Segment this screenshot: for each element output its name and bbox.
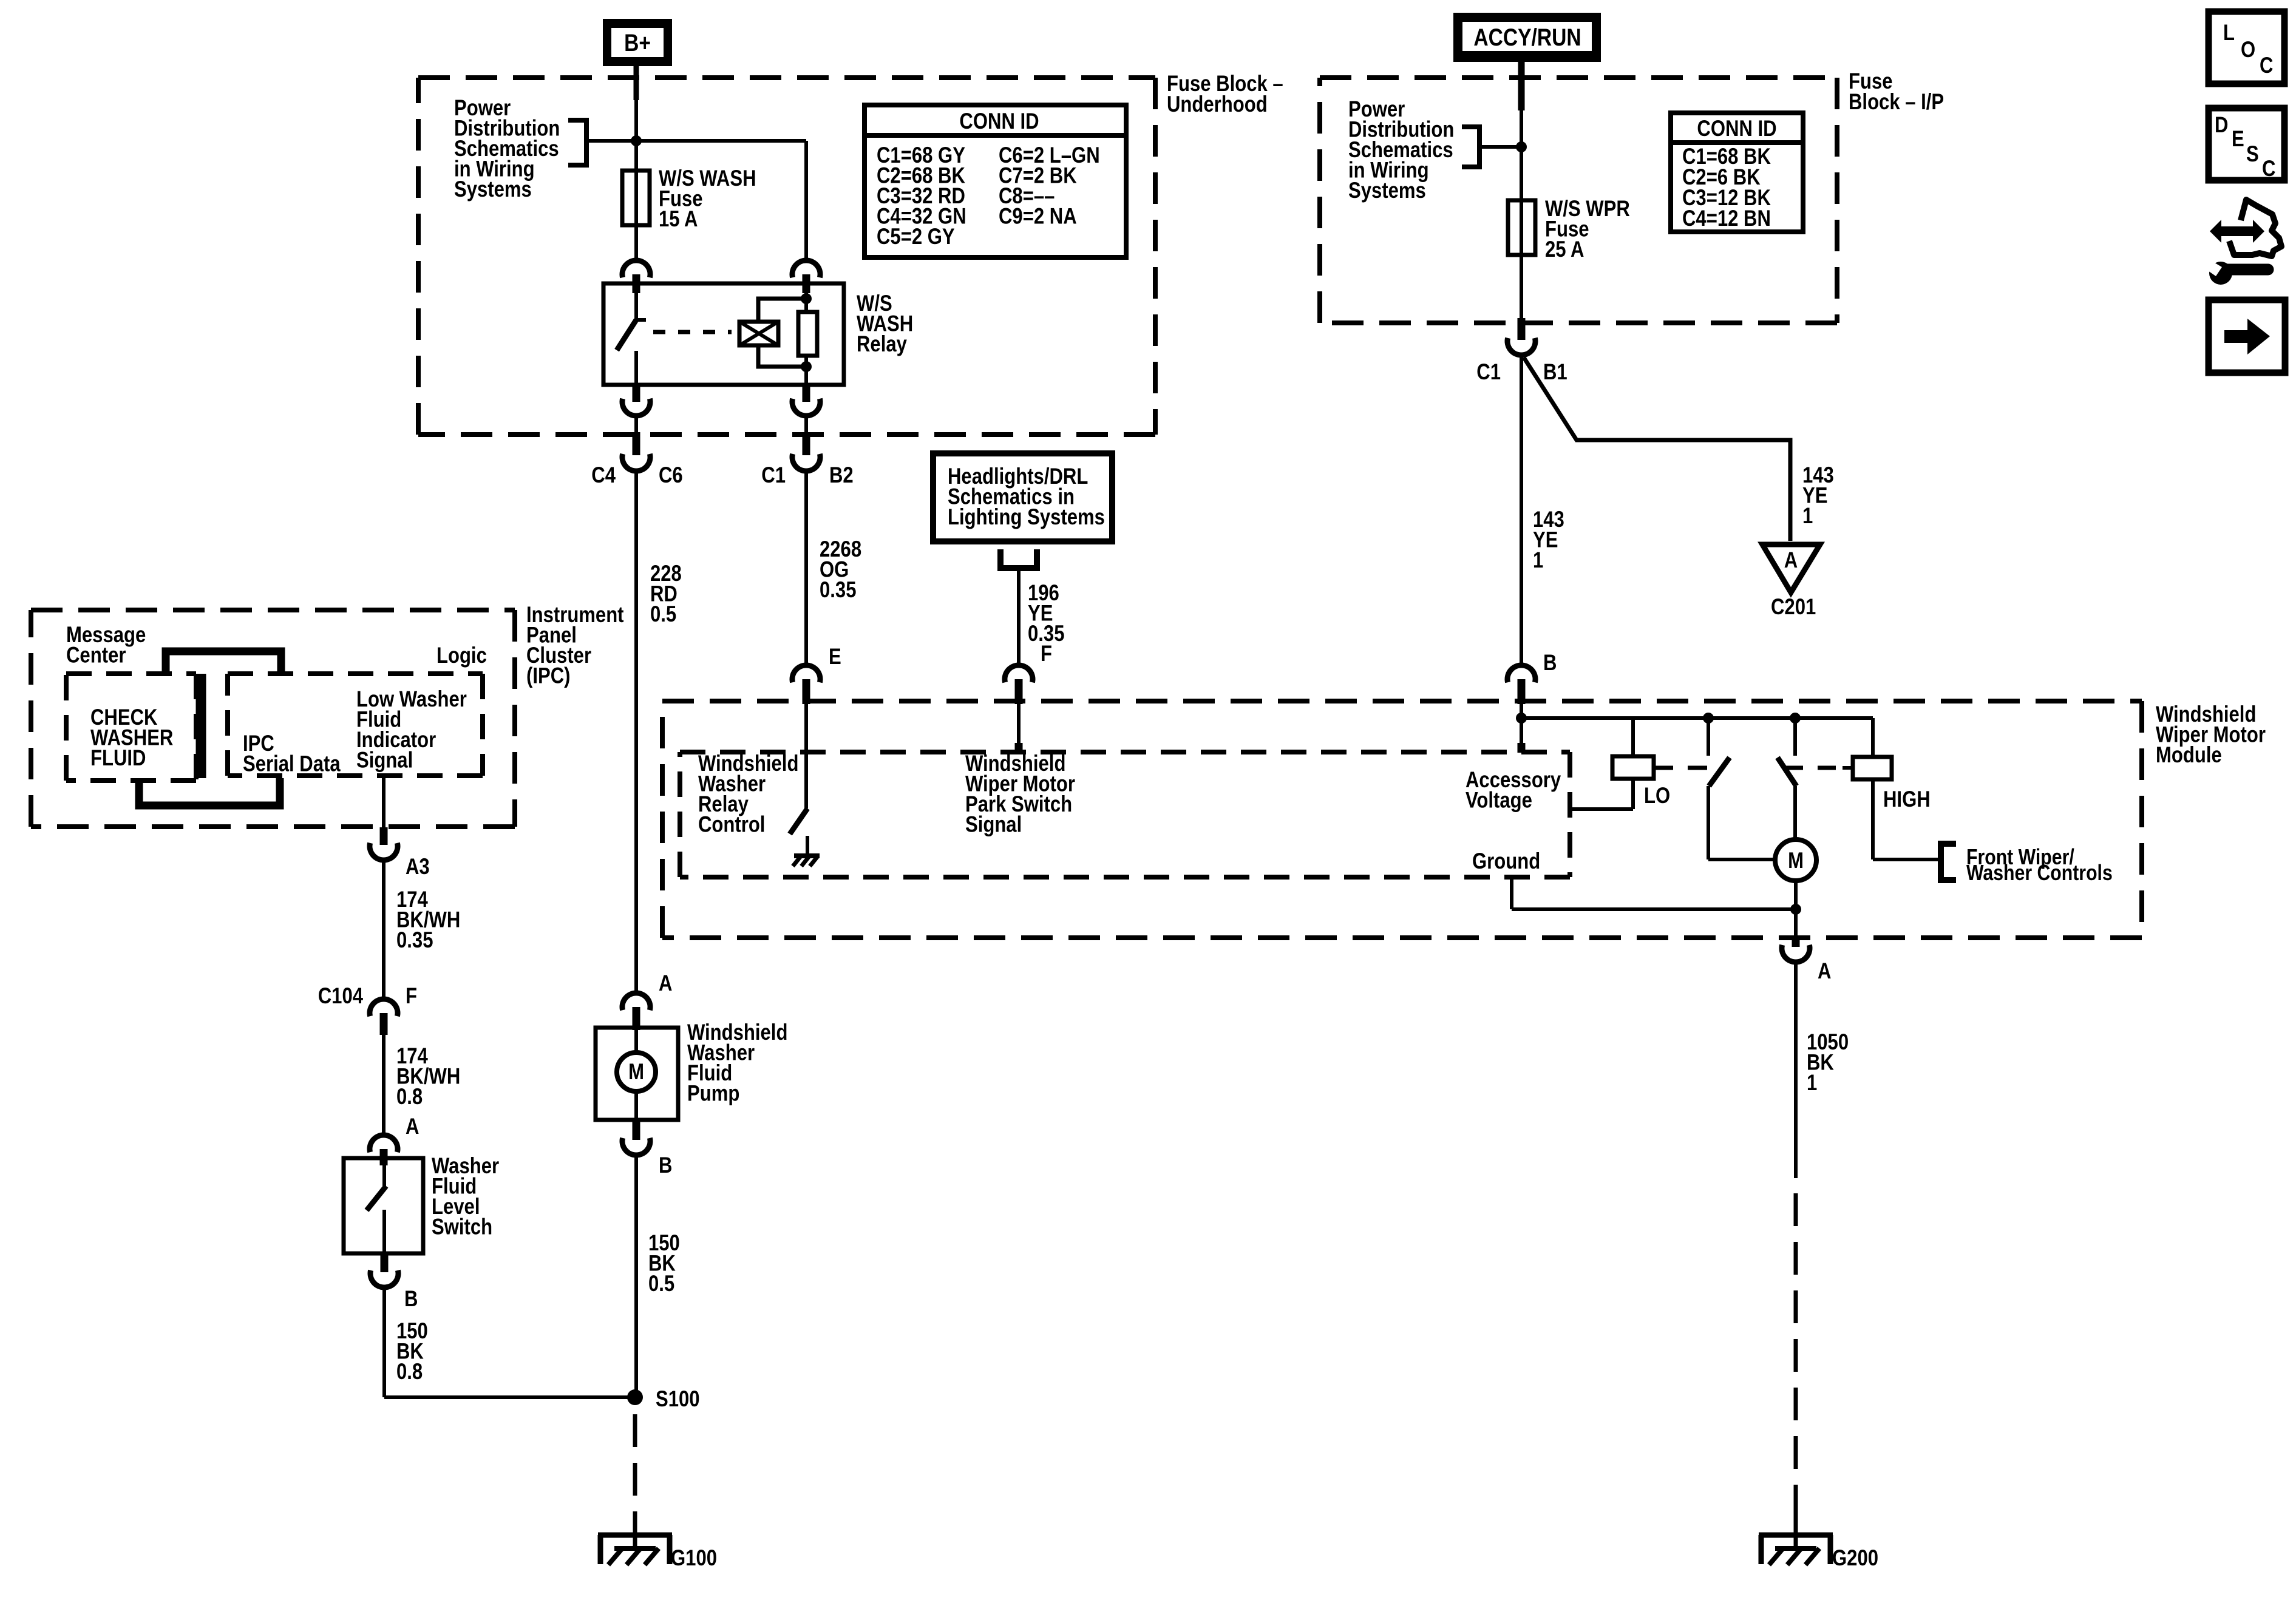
bracket power distribution underhood (568, 120, 586, 165)
serial data bus symbol (166, 651, 281, 675)
fuse W/S WPR 25A (1508, 200, 1535, 255)
relay switch (634, 283, 638, 320)
svg-text:S: S (2246, 142, 2259, 167)
svg-text:0.35: 0.35 (396, 928, 433, 953)
svg-text:(IPC): (IPC) (526, 663, 570, 688)
junction dot relay coil top (801, 293, 812, 304)
svg-text:Systems: Systems (454, 177, 532, 202)
connector C1 B1 (1518, 318, 1526, 340)
wire feed down to relay right (804, 141, 808, 260)
svg-text:M: M (1788, 849, 1804, 873)
icon vehicle diagnostics (2210, 220, 2264, 243)
wire dashed to G200 (1794, 1193, 1798, 1532)
wire ACCY down to fuse (1520, 78, 1523, 200)
chassis ground internal (794, 853, 820, 858)
level switch (382, 1158, 386, 1186)
svg-text:B1: B1 (1543, 360, 1567, 385)
svg-text:Switch: Switch (432, 1215, 492, 1239)
connector relay bottom right (803, 385, 810, 402)
svg-text:B: B (659, 1153, 672, 1178)
linkage switch2 to HIGH (1785, 766, 1843, 770)
wire 150 BK 0.8 (382, 1287, 386, 1397)
svg-text:1: 1 (1802, 504, 1813, 529)
svg-text:ACCY/RUN: ACCY/RUN (1473, 24, 1581, 50)
svg-text:Control: Control (698, 812, 765, 837)
svg-text:E: E (2232, 127, 2244, 152)
wire low washer fluid signal (382, 776, 385, 827)
svg-text:1: 1 (1807, 1071, 1817, 1096)
junction dot bus switch2 (1790, 713, 1801, 724)
connector C104 F (370, 999, 398, 1016)
icon DESC box (2209, 108, 2284, 180)
wire 150 BK 0.5 (634, 1155, 638, 1397)
relay coil loop wires (758, 299, 806, 320)
svg-text:B+: B+ (624, 29, 651, 56)
connector B level switch (381, 1253, 389, 1272)
svg-text:0.8: 0.8 (396, 1360, 423, 1385)
svg-text:F: F (406, 984, 417, 1009)
linkage LO to switch1 (1654, 766, 1719, 770)
svg-text:C4=12 BN: C4=12 BN (1682, 206, 1771, 231)
ground return wire (1510, 877, 1513, 909)
svg-text:C1: C1 (1476, 360, 1501, 385)
svg-text:C9=2 NA: C9=2 NA (999, 204, 1077, 229)
svg-text:M: M (628, 1060, 644, 1085)
conn id table IP (1671, 113, 1803, 232)
svg-text:C104: C104 (318, 984, 363, 1009)
svg-text:Center: Center (66, 643, 126, 668)
svg-text:Washer Controls: Washer Controls (1966, 861, 2113, 886)
logic dashed box (228, 671, 483, 676)
svg-text:E: E (829, 645, 841, 670)
power feed terminal ACCY/RUN (1453, 13, 1601, 62)
wire feed horizontal IP (1479, 145, 1521, 149)
svg-text:Relay: Relay (857, 332, 907, 357)
park switch signal wire (1017, 704, 1021, 745)
connector relay top left (622, 260, 650, 277)
svg-text:CONN ID: CONN ID (959, 109, 1039, 134)
junction dot ACCY feed (1516, 141, 1527, 152)
wire 174 BK/WH 0.35 (382, 860, 385, 999)
wire feed horizontal underhood (586, 139, 806, 143)
ground G100 (598, 1533, 672, 1538)
svg-text:Ground: Ground (1472, 849, 1540, 874)
svg-text:FLUID: FLUID (90, 746, 146, 771)
connector C1 B2 (803, 432, 810, 455)
relay resistor (804, 274, 808, 312)
svg-text:C6: C6 (659, 463, 683, 488)
svg-text:A: A (1784, 548, 1798, 573)
connector A level switch (370, 1135, 398, 1152)
junction dot B+ feed (631, 135, 642, 146)
module inner dashed box (680, 750, 1570, 754)
svg-text:C: C (2262, 157, 2275, 181)
power feed terminal B+ (603, 19, 672, 66)
connector F (1005, 665, 1033, 682)
relay W/S WASH box (603, 283, 844, 385)
connector relay top right (792, 260, 820, 277)
svg-text:25 A: 25 A (1545, 237, 1584, 262)
wiper switch low (1707, 718, 1710, 756)
svg-text:LO: LO (1644, 784, 1670, 808)
svg-text:C: C (2260, 53, 2273, 78)
svg-text:0.5: 0.5 (650, 602, 676, 627)
svg-text:Underhood: Underhood (1167, 92, 1268, 117)
relay coil HIGH (1871, 718, 1875, 757)
wire B+ down to fuse (634, 78, 638, 171)
connector A3 (380, 827, 388, 845)
svg-text:0.35: 0.35 (820, 578, 856, 603)
ground G200 (1759, 1533, 1833, 1538)
wiper motor module dashed box (662, 699, 2142, 703)
svg-text:Lighting Systems: Lighting Systems (948, 505, 1105, 530)
wire fuse to relay connector (634, 225, 638, 260)
wiper motor M (1775, 839, 1816, 881)
wire 1050 BK 1 (1794, 962, 1798, 1178)
wiper switch high (1793, 718, 1797, 756)
svg-text:0.5: 0.5 (648, 1272, 674, 1297)
wire B+ to fuse block (634, 66, 639, 100)
wire relay to block edge right (804, 416, 808, 433)
svg-text:L: L (2223, 21, 2235, 46)
svg-text:0.8: 0.8 (396, 1085, 423, 1110)
junction dot bus left (1516, 713, 1527, 724)
svg-text:Logic: Logic (436, 643, 487, 668)
relay coil LO (1631, 718, 1635, 756)
connector C4 C6 (633, 432, 640, 455)
wire S100 to G100 dashed (633, 1414, 637, 1532)
washer fluid level switch box (344, 1158, 423, 1253)
wire fuse to block edge (1520, 255, 1523, 318)
svg-text:F: F (1041, 642, 1052, 666)
connector A module (1792, 935, 1800, 947)
relay linkage dashed (653, 330, 732, 334)
svg-text:A: A (1818, 959, 1831, 984)
instrument panel cluster dashed box (31, 608, 515, 612)
connector relay bottom left (633, 385, 640, 402)
fuse block underhood dashed box (418, 75, 1155, 80)
bracket power distribution IP (1462, 127, 1479, 167)
svg-text:Systems: Systems (1348, 178, 1426, 203)
conn id table underhood (864, 105, 1126, 257)
svg-text:G200: G200 (1832, 1546, 1878, 1571)
svg-text:HIGH: HIGH (1883, 787, 1931, 812)
wire 2268 OG 0.35 (804, 471, 808, 665)
svg-text:1: 1 (1533, 548, 1543, 573)
fuse block IP dashed box (1320, 75, 1837, 80)
svg-text:S100: S100 (656, 1387, 700, 1412)
washer pump motor (634, 1028, 638, 1053)
svg-text:C5=2 GY: C5=2 GY (877, 225, 955, 249)
svg-text:Signal: Signal (965, 812, 1022, 837)
svg-text:15 A: 15 A (659, 207, 698, 232)
svg-text:O: O (2241, 38, 2255, 63)
wire 196 YE 0.35 (1017, 568, 1021, 665)
svg-text:Voltage: Voltage (1466, 788, 1532, 813)
svg-text:B2: B2 (829, 463, 854, 488)
bracket front wiper controls (1941, 844, 1956, 880)
svg-text:D: D (2215, 113, 2228, 138)
wire branch to C201 (1524, 358, 1790, 541)
wire 143 YE to module (1520, 355, 1523, 665)
connector A pump (622, 993, 650, 1010)
svg-text:B: B (404, 1287, 418, 1312)
icon arrow box (2209, 300, 2285, 373)
fuse W/S WASH 15A (622, 171, 650, 225)
icon LOC box (2209, 12, 2284, 84)
connector B pump (633, 1120, 640, 1140)
wire accessory voltage stub (1520, 704, 1523, 745)
junction dot bus switch1 (1703, 713, 1714, 724)
junction dot motor ground (1790, 904, 1801, 915)
washer relay control switch (804, 704, 808, 808)
washer fluid pump box (596, 1028, 678, 1120)
svg-text:Pump: Pump (687, 1081, 739, 1106)
wire ACCY to fuse block (1518, 62, 1525, 110)
wire relay to block edge left (634, 416, 638, 433)
module bus wire (1521, 716, 1873, 720)
bracket headlights (1000, 549, 1037, 568)
svg-text:C4: C4 (591, 463, 616, 488)
svg-text:Serial Data: Serial Data (243, 751, 341, 776)
svg-text:Signal: Signal (356, 748, 413, 773)
svg-text:A: A (659, 971, 672, 996)
wire 174 BK/WH 0.8 (382, 1035, 385, 1135)
connector E (792, 665, 820, 682)
junction dot relay coil bottom (801, 361, 812, 372)
svg-text:G100: G100 (671, 1546, 717, 1571)
connector C201 triangle (1762, 544, 1820, 592)
relay coil box (739, 322, 778, 345)
svg-text:A3: A3 (406, 855, 430, 880)
message center display dashed box (66, 671, 196, 676)
wire 228 RD 0.5 (634, 471, 638, 993)
svg-text:CONN ID: CONN ID (1697, 117, 1776, 141)
headlights DRL schematics box (933, 453, 1112, 541)
svg-text:C1: C1 (761, 463, 786, 488)
svg-text:Block – I/P: Block – I/P (1849, 90, 1944, 115)
svg-text:C201: C201 (1771, 595, 1816, 620)
splice S100 (627, 1389, 643, 1405)
svg-text:A: A (406, 1114, 419, 1139)
connector B module (1507, 665, 1535, 682)
svg-text:Module: Module (2156, 743, 2222, 768)
svg-text:B: B (1543, 651, 1557, 676)
